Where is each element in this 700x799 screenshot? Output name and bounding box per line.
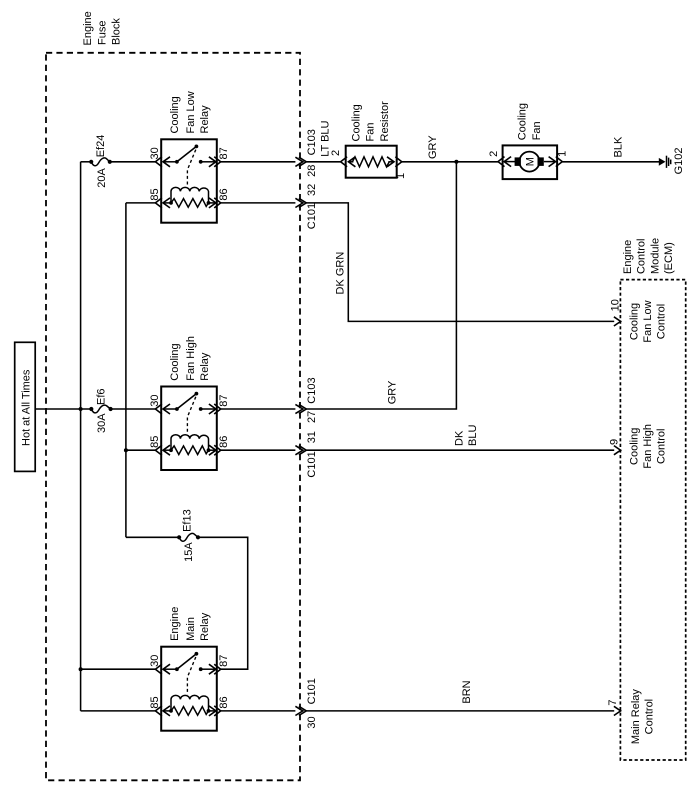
svg-text:Control: Control [656,429,668,464]
svg-text:Main: Main [185,617,197,641]
fan motor [504,152,555,172]
svg-text:86: 86 [218,436,230,448]
wire: low relay 85 to bus [126,202,155,204]
svg-text:Engine: Engine [82,11,94,45]
label Engine Fuse Block [82,11,123,45]
wire: battery feed to fuse Ef6 [35,408,91,410]
node: junction bus/main relay 30 [79,667,83,671]
svg-text:30: 30 [306,716,318,728]
ECM pin 7 [607,699,620,715]
svg-text:Control: Control [644,699,656,734]
wire BRN: main relay 86 to connector C101-30 [221,710,296,712]
svg-text:86: 86 [218,188,230,200]
relay Cooling Fan High Relay contact pin 30 [155,404,177,414]
svg-text:Control: Control [636,239,648,274]
relay Cooling Fan High Relay armature switch [175,392,203,434]
wire LT BLU: connector to resistor pin 2 [306,161,340,163]
relay Cooling Fan High Relay coil [169,435,210,455]
wire GRY: high relay 87 to connector C103-27 [221,408,296,410]
svg-text:28: 28 [306,165,318,177]
fuse Ef6 [89,388,112,433]
relay Engine Main Relay box [161,647,217,731]
fuse Ef13 [177,509,200,562]
svg-text:Fuse: Fuse [96,21,108,45]
svg-text:Ef24: Ef24 [95,135,107,158]
svg-text:30: 30 [149,394,161,406]
svg-text:30: 30 [149,147,161,159]
wire DK GRN: connector to ECM pin 10 [306,203,614,322]
svg-text:DK GRN: DK GRN [335,252,347,295]
wire: bus to main relay 30 [81,668,156,670]
fan pin 2 [488,151,505,167]
svg-text:Module: Module [649,238,661,274]
wire: Ef24 to relay pin 30 [110,161,156,163]
node: junction resistor output / GRY [454,160,458,164]
svg-text:C101: C101 [306,451,318,477]
label DK BLU [454,425,480,446]
svg-text:85: 85 [149,436,161,448]
relay Engine Main Relay contact pin 30 [155,664,177,674]
svg-text:Cooling: Cooling [629,303,641,340]
relay Cooling Fan Low Relay contact pin 87 [201,157,221,167]
resistor element [348,157,394,167]
engine fuse block dashed border [46,53,300,781]
svg-text:Hot at All Times: Hot at All Times [20,369,32,446]
fan pin 1 [556,151,569,167]
svg-text:Fan: Fan [365,123,377,142]
svg-text:DK: DK [454,430,466,446]
label Engine Control Module (ECM) [622,238,675,274]
svg-text:87: 87 [218,147,230,159]
relay Cooling Fan Low Relay coil pin 85 [155,198,171,208]
svg-text:Fan Low: Fan Low [185,91,197,133]
svg-text:31: 31 [306,431,318,443]
ECM pin 9 [608,439,620,455]
svg-text:85: 85 [149,696,161,708]
svg-text:Relay: Relay [199,352,211,381]
relay Engine Main Relay coil pin 85 [155,706,171,716]
relay Cooling Fan Low Relay box [161,139,217,222]
connector C101 pin 32 [295,184,318,229]
svg-text:Fan Low: Fan Low [642,300,654,342]
svg-text:BRN: BRN [461,680,473,703]
wire: bus to fuse Ef24 [81,161,92,163]
connector C101 pin 30 [295,678,318,728]
relay Cooling Fan Low Relay contact pin 30 [155,157,177,167]
relay Engine Main Relay coil pin 86 [209,706,221,716]
wire DK GRN: low relay 86 to connector C101-32 [221,202,296,204]
svg-text:Engine: Engine [169,607,181,641]
wire: high relay 85 [126,449,155,451]
svg-text:Fan High: Fan High [185,336,197,381]
svg-text:M: M [524,157,536,166]
wire GRY: resistor to fan pin 2 [402,161,498,163]
svg-text:Ef6: Ef6 [96,388,108,405]
svg-text:Engine: Engine [622,240,634,274]
relay Engine Main Relay title [169,607,211,641]
svg-text:1: 1 [395,173,407,179]
svg-text:1: 1 [557,151,569,157]
wire DK BLU: connector to ECM pin 9 [306,449,614,451]
node: junction on feed at x=80.6 [79,407,83,411]
relay Engine Main Relay coil [169,695,210,715]
svg-text:Ef13: Ef13 [182,509,194,532]
cooling fan resistor title [351,101,392,142]
relay Cooling Fan High Relay pin labels 30 87 85 86 [149,394,230,447]
relay Cooling Fan Low Relay coil pin 86 [209,198,221,208]
svg-text:Relay: Relay [199,105,211,134]
node: junction bus/high relay 85 [124,448,128,452]
svg-text:GRY: GRY [427,135,439,159]
wire: main vertical bus x=80.6 [80,162,82,711]
relay Cooling Fan Low Relay title [169,91,211,133]
wire DK BLU: high relay 86 to connector C101-31 [221,449,296,451]
resistor pin 1 [395,157,407,179]
wire BLK: fan to ground [562,161,659,163]
ground G102 [659,147,685,174]
svg-text:Cooling: Cooling [169,343,181,380]
fuse Ef24 [89,135,112,188]
svg-text:27: 27 [306,411,318,423]
svg-text:7: 7 [607,699,619,705]
connector C101 pin 31 [295,431,318,478]
svg-text:2: 2 [488,151,500,157]
svg-text:Cooling: Cooling [517,103,529,140]
cooling fan title [517,103,543,140]
svg-text:Fan High: Fan High [642,424,654,469]
cooling fan box [503,145,557,179]
svg-text:(ECM): (ECM) [663,242,675,274]
label Cooling Fan Low Control [629,300,668,342]
relay Cooling Fan High Relay coil pin 85 [155,445,171,455]
svg-text:C101: C101 [306,678,318,704]
connector C103 pin 28 [295,129,318,177]
svg-text:85: 85 [149,188,161,200]
wire: coil bus x=125.9 [125,203,127,537]
svg-text:Cooling: Cooling [351,104,363,141]
svg-text:C103: C103 [306,377,318,403]
svg-text:86: 86 [218,696,230,708]
svg-text:30A: 30A [96,413,108,433]
svg-text:BLK: BLK [612,136,624,157]
relay Cooling Fan High Relay coil pin 86 [209,445,221,455]
ECM dashed box [620,280,685,760]
ECM pin 10 [610,299,622,326]
svg-text:Relay: Relay [199,612,211,641]
svg-text:G102: G102 [673,147,685,174]
svg-text:87: 87 [218,394,230,406]
svg-text:2: 2 [330,150,342,156]
wire: Ef13 to main relay 87 [198,537,248,669]
resistor pin 2 [330,150,347,167]
Hot at All Times box [15,342,36,471]
wire LT BLU: low relay 87 to connector C103-28 [221,161,296,163]
svg-text:9: 9 [608,439,620,445]
label Main Relay Control [630,689,656,745]
svg-text:Fan: Fan [531,121,543,140]
connector C103 pin 27 [295,377,318,423]
svg-text:15A: 15A [183,542,195,562]
svg-text:Cooling: Cooling [169,96,181,133]
wire: Ef6 to relay pin 30 [111,408,156,410]
relay Cooling Fan Low Relay armature switch [175,145,203,187]
relay Engine Main Relay pin labels 30 87 85 86 [149,655,230,709]
relay Cooling Fan Low Relay coil [169,187,210,207]
wire: coil bus to Ef13 [126,536,179,538]
wire: bus to main relay 85 [81,710,156,712]
svg-text:Control: Control [656,304,668,339]
svg-text:32: 32 [306,184,318,196]
svg-text:C103: C103 [306,129,318,155]
svg-text:Main Relay: Main Relay [630,689,642,745]
wire GRY: connector up to fan feed [306,162,456,409]
svg-text:20A: 20A [96,167,108,187]
wire BRN: connector to ECM pin 7 [306,710,614,712]
svg-text:GRY: GRY [387,380,399,404]
svg-text:30: 30 [149,655,161,667]
relay Cooling Fan High Relay contact pin 87 [201,404,221,414]
relay Cooling Fan High Relay box [161,387,217,471]
svg-text:BLU: BLU [467,425,479,446]
cooling fan resistor box [346,146,397,178]
relay Cooling Fan High Relay title [169,336,211,381]
svg-text:C101: C101 [306,203,318,229]
relay Engine Main Relay contact pin 87 [201,664,221,674]
svg-text:Resistor: Resistor [379,101,391,142]
svg-text:10: 10 [610,299,622,311]
svg-text:Cooling: Cooling [629,428,641,465]
relay Engine Main Relay armature switch [175,652,203,695]
label Cooling Fan High Control [629,424,668,469]
svg-text:87: 87 [218,655,230,667]
svg-text:Block: Block [111,18,123,45]
relay Cooling Fan Low Relay pin labels 30 87 85 86 [149,147,230,200]
